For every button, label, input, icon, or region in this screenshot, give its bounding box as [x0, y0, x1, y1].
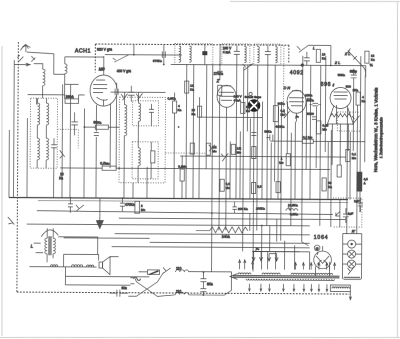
- IF transformer box2 dashed: [222, 44, 250, 65]
- svg-text:G: G: [316, 247, 319, 251]
- svg-text:Ka: Ka: [190, 88, 194, 92]
- osc switch a: [121, 94, 128, 101]
- ladder rung dots: [343, 244, 362, 264]
- tube V3 envelope: [287, 90, 306, 113]
- resistor 12Ka IF: [185, 81, 195, 93]
- osc lower coil: [138, 148, 140, 166]
- IF1 coil a: [179, 46, 181, 62]
- svg-text:Mo: Mo: [237, 150, 242, 154]
- dashed feedback box: [337, 112, 360, 131]
- svg-text:670Ka: 670Ka: [153, 59, 162, 63]
- svg-text:Mo: Mo: [322, 127, 327, 131]
- svg-text:Z: Z: [216, 78, 220, 83]
- switch mid: [221, 153, 228, 161]
- ladder switch: [347, 268, 353, 275]
- svg-text:4 mA: 4 mA: [223, 50, 231, 54]
- svg-text:Mo: Mo: [141, 208, 146, 212]
- diagonal feed wire: [347, 49, 366, 78]
- resistor 270Ka vert: [218, 85, 222, 95]
- svg-text:Ka: Ka: [59, 176, 63, 180]
- cap left low: [68, 198, 73, 213]
- svg-text:P²: P²: [256, 248, 260, 252]
- svg-text:10,5Ka: 10,5Ka: [288, 203, 298, 207]
- resistor 1Mo: [279, 154, 290, 166]
- resistor 0.25Mo v4: [316, 121, 328, 134]
- primary winding comb a: [238, 273, 251, 274]
- wires above rectifier: [253, 226, 309, 269]
- tuning coil 2a: [37, 138, 39, 160]
- osc switch b: [136, 93, 143, 100]
- svg-text:Mo: Mo: [280, 113, 285, 117]
- chassis dashed border left: [17, 42, 19, 292]
- bottom right lead: [349, 292, 351, 300]
- bus fourth: [27, 224, 310, 226]
- tube V2 electrodes: [219, 86, 234, 117]
- mid rails band: [54, 84, 71, 198]
- cap 680p: [351, 69, 357, 84]
- bus switch diagonal: [113, 55, 129, 63]
- tick on diagonal: [353, 56, 357, 60]
- lower horizontals: [64, 218, 310, 252]
- resistor mid white: [337, 165, 341, 177]
- svg-text:Schatt Gaps: Schatt Gaps: [245, 95, 262, 99]
- top right cap G: [304, 52, 310, 66]
- svg-text:50Ka: 50Ka: [338, 73, 346, 77]
- IF2 trimmer: [234, 45, 240, 62]
- svg-text:P³: P³: [295, 115, 299, 119]
- svg-text:200 Ka: 200 Ka: [238, 207, 248, 211]
- resistor 30Ka low: [276, 182, 280, 193]
- osc right resistor: [167, 96, 181, 113]
- choke coil a: [51, 265, 58, 267]
- osc sub-box lower dashed: [132, 142, 158, 179]
- tube ACH1 leads: [93, 56, 110, 198]
- wire speaker to right: [65, 256, 149, 285]
- wires 80Ka: [84, 108, 120, 198]
- resistor 10Ka v2 anode: [191, 106, 201, 117]
- IF3 trimmer: [265, 46, 271, 63]
- cap 8Ka upper: [200, 272, 206, 286]
- coil interconnects: [36, 98, 46, 168]
- svg-text:320 V g¾: 320 V g¾: [97, 47, 112, 51]
- resistor 50Ka lowmid: [322, 178, 332, 191]
- svg-text:R′: R′: [352, 230, 356, 234]
- output transformer secondary coil: [53, 238, 55, 254]
- svg-text:ℓ: ℓ: [332, 82, 335, 87]
- svg-text:Ka: Ka: [177, 108, 181, 112]
- bottom right comb box: [330, 285, 350, 292]
- cap 8Ka lower: [200, 286, 206, 295]
- fuse: [147, 270, 159, 275]
- osc main coil: [124, 105, 127, 136]
- main ground bus: [9, 197, 348, 199]
- wire anode link: [199, 116, 262, 118]
- osc sub-box upper dashed: [132, 101, 158, 126]
- side caption rotated: [373, 88, 384, 173]
- tap arrowheads up: [239, 260, 336, 266]
- chassis dashed border bottom: [17, 292, 349, 294]
- resistor x253: [252, 146, 256, 158]
- bus third: [119, 218, 346, 219]
- ground stub arrow: [14, 63, 31, 66]
- svg-text:Ka: Ka: [371, 58, 375, 62]
- verticals to transformer: [212, 199, 360, 273]
- tube ACH1 envelope: [90, 75, 117, 106]
- mains sine symbol: [133, 277, 140, 280]
- dashed link low: [165, 152, 205, 154]
- resistor 80Ka: [93, 121, 108, 130]
- wire 94.5: [28, 95, 85, 99]
- ladder top rung: [343, 233, 362, 235]
- wire antenna feed: [27, 52, 104, 74]
- primary taps up: [240, 251, 335, 269]
- resistor half Mo: [206, 143, 217, 155]
- svg-text:0,1Mo: 0,1Mo: [178, 165, 187, 169]
- tube V3 electrodes: [289, 91, 304, 122]
- tube V4 cone: [327, 105, 353, 124]
- osc right lower box: [178, 165, 187, 182]
- ladder bottom comb: [343, 277, 361, 279]
- ground hook left: [8, 217, 15, 225]
- cap mid small: [251, 132, 256, 135]
- svg-text:4092: 4092: [290, 70, 304, 76]
- svg-text:Ka: Ka: [191, 112, 195, 116]
- tube V4 envelope: [330, 87, 351, 108]
- output transformer core: [48, 236, 52, 255]
- tube V2 envelope: [217, 85, 236, 107]
- transformer leads: [34, 228, 98, 262]
- switch at V2 grid: [243, 63, 253, 70]
- bus second: [37, 211, 333, 215]
- svg-text:4 mA: 4 mA: [234, 98, 242, 102]
- svg-text:1 Zwischenfrequenzstufe: 1 Zwischenfrequenzstufe: [379, 117, 383, 158]
- svg-text:110: 110: [176, 267, 182, 271]
- tube V4 legs: [332, 124, 348, 165]
- svg-text:L: L: [313, 45, 315, 50]
- svg-text:8Ka: 8Ka: [207, 282, 213, 286]
- rectifier plates: [316, 256, 329, 265]
- svg-text:50Ka: 50Ka: [264, 130, 272, 134]
- resistor 12Ka top right: [365, 51, 375, 63]
- svg-text:Δ: Δ: [364, 181, 366, 185]
- svg-text:0,2 Mo: 0,2 Mo: [303, 135, 313, 139]
- tube V4 top cap: [334, 92, 348, 99]
- svg-text:Ka: Ka: [246, 109, 250, 113]
- primary winding comb c: [291, 273, 333, 275]
- left rail A: [12, 60, 15, 197]
- primary winding comb b: [262, 273, 280, 275]
- resistor 0.1Mo: [346, 150, 357, 162]
- left rail C: [26, 118, 28, 197]
- svg-text:60n: 60n: [121, 286, 127, 290]
- rectifier tube: [314, 251, 332, 269]
- choke coil b: [72, 265, 83, 267]
- svg-text:470Ka: 470Ka: [125, 203, 135, 207]
- svg-text:L: L: [31, 244, 34, 249]
- dashed link wire: [57, 129, 78, 148]
- mains choke upper: [176, 270, 189, 272]
- ground bus companion line: [38, 201, 348, 203]
- cap 1uF upper: [358, 198, 363, 212]
- tuning coil 2b: [46, 138, 48, 160]
- chassis dashed border right segment: [288, 45, 290, 63]
- svg-text:5000: 5000: [307, 112, 314, 116]
- resistor 10Ka mid: [241, 102, 250, 113]
- tuning coil 1a: [37, 103, 39, 125]
- resistor 0.5Mo: [100, 162, 116, 171]
- tube V4 heater zigzag: [330, 114, 351, 118]
- svg-text:240Δ: 240Δ: [222, 235, 231, 239]
- bus line IF level: [171, 64, 366, 65]
- lamp 2: [348, 250, 356, 258]
- hook arrow lower: [335, 211, 340, 216]
- power transformer core: [232, 276, 339, 278]
- horizontal AVC line: [180, 156, 345, 157]
- output transformer arc: [41, 230, 58, 237]
- left rail B: [8, 130, 10, 197]
- mains choke lower: [175, 292, 188, 294]
- antenna coil: [34, 64, 46, 99]
- lamp 1: [348, 240, 356, 248]
- switch left low: [76, 205, 84, 212]
- svg-text:110: 110: [176, 290, 182, 294]
- detector switch hook: [283, 111, 289, 118]
- svg-text:80Ka: 80Ka: [93, 121, 101, 125]
- lamp 3: [348, 260, 356, 268]
- rectifier grid circle: [314, 245, 320, 251]
- osc wires: [124, 92, 183, 198]
- svg-text:Mo: Mo: [352, 156, 357, 160]
- right dashed box: [333, 198, 362, 227]
- svg-text:260Δ: 260Δ: [66, 95, 75, 99]
- antenna switch contacts: [17, 55, 35, 62]
- top inner verticals: [134, 44, 164, 64]
- svg-text:Mo: Mo: [212, 149, 217, 153]
- antenna: [20, 44, 30, 52]
- osc lower resistor: [151, 151, 155, 163]
- IF2 coil: [244, 46, 246, 62]
- magic eye body: [248, 99, 261, 112]
- padder capacitor: [51, 138, 57, 153]
- resistor 260 horiz: [65, 99, 79, 104]
- svg-text:Nora, Wechselstrom W., 3 Kreis: Nora, Wechselstrom W., 3 Kreise, 1 Vorkr…: [373, 88, 379, 173]
- output transformer primary coil: [45, 238, 47, 254]
- top bus line: [105, 54, 182, 56]
- bottom right comb teeth: [332, 287, 350, 289]
- svg-text:300: 300: [346, 85, 351, 89]
- secondary taps down: [249, 284, 327, 290]
- cap 670Ka on bus: [162, 51, 165, 58]
- bus through 0.5Mo: [60, 168, 330, 170]
- wire 0.2Mo line: [270, 140, 365, 143]
- osc top wire: [111, 91, 166, 93]
- svg-text:ACH1: ACH1: [75, 48, 91, 54]
- top right switch: [297, 45, 331, 65]
- dashed vertical detector: [283, 46, 285, 109]
- mains leads left: [130, 278, 134, 284]
- svg-text:Ka: Ka: [328, 185, 332, 189]
- svg-text:1064: 1064: [314, 235, 329, 241]
- cap 50Ka mid: [266, 135, 273, 141]
- cap 200Ka: [232, 201, 237, 213]
- switch x210: [209, 145, 215, 152]
- svg-text:M0: M0: [99, 67, 106, 72]
- resistor 2Mo: [135, 201, 146, 213]
- chassis dashed border top: [95, 44, 288, 45]
- potentiometer scribble: [286, 207, 298, 211]
- band coil box dashed: [30, 98, 57, 168]
- resistor 50Ka x222: [220, 179, 230, 191]
- cap under IF1: [217, 44, 223, 81]
- cap 1uF lower: [343, 208, 349, 223]
- mains wiring right: [157, 271, 231, 296]
- magic eye cross: [250, 101, 258, 109]
- resistor 4Ka: [356, 92, 366, 105]
- IF1 blocking cap: [202, 45, 207, 65]
- choke coil c: [87, 265, 94, 267]
- cap 470Ka: [120, 198, 125, 211]
- magic eye pointer circle: [249, 92, 252, 95]
- wave switch: [60, 150, 65, 158]
- IF3 coil b: [275, 47, 277, 63]
- feedback switch: [352, 116, 360, 125]
- cap 50Ka grid: [310, 103, 322, 106]
- long verticals midband: [186, 55, 366, 272]
- svg-text:Mo: Mo: [279, 161, 284, 165]
- svg-text:0,5Mo: 0,5Mo: [100, 162, 110, 166]
- chassis dashed stub left: [94, 44, 96, 72]
- left rail D: [36, 98, 38, 104]
- core left arrow tip: [230, 274, 238, 280]
- speaker driver: [99, 257, 110, 275]
- rectifier leads: [315, 246, 329, 276]
- trimmer cap x74: [71, 112, 78, 135]
- svg-text:270Ka: 270Ka: [214, 72, 223, 76]
- crossover wires: [128, 272, 157, 297]
- IF transformer box1 dashed: [175, 44, 213, 65]
- IF3 coil a: [257, 47, 259, 63]
- tuning coil 1b: [46, 103, 48, 125]
- svg-text:20Ka: 20Ka: [305, 93, 313, 97]
- secondary tap arrowheads: [248, 288, 327, 291]
- IF1 coil b: [189, 46, 191, 62]
- svg-text:2 L: 2 L: [334, 60, 341, 65]
- top right resistor 13Ka: [316, 49, 326, 62]
- osc upper coil: [138, 103, 140, 121]
- box half Mo b: [231, 144, 241, 154]
- svg-text:0,3: 0,3: [257, 185, 262, 189]
- svg-text:Ka: Ka: [322, 56, 326, 60]
- svg-text:D N: D N: [284, 86, 291, 90]
- resistor 0.3 low: [251, 182, 261, 193]
- mid tap arrows: [252, 251, 278, 261]
- svg-text:Mo: Mo: [226, 186, 231, 190]
- svg-text:400Ka: 400Ka: [275, 125, 284, 129]
- input coupling coil: [65, 57, 68, 95]
- IF transformer box3 dashed: [254, 44, 281, 65]
- resistor 0.25Mo: [273, 106, 285, 129]
- resistor 4.58Ka dark: [357, 172, 368, 191]
- resistor 240 zigzag: [196, 213, 250, 233]
- chassis cap 60n: [109, 290, 128, 297]
- wire loop below: [30, 254, 99, 267]
- wire input junction: [63, 84, 79, 98]
- osc grid cap: [128, 86, 135, 102]
- resistor 0.2Mo horizontal: [302, 135, 313, 143]
- indicator ladder rails: [342, 234, 361, 280]
- grid capacitor: [115, 83, 119, 169]
- cap 5000: [312, 117, 317, 120]
- svg-text:400 V g¾: 400 V g¾: [117, 69, 131, 73]
- secondary winding comb: [246, 279, 334, 281]
- svg-text:680p: 680p: [350, 70, 357, 74]
- cap 20Ka: [307, 98, 312, 101]
- mains switch: [163, 267, 171, 273]
- svg-text:100Ka: 100Ka: [256, 207, 265, 211]
- svg-text:¼: ¼: [370, 63, 373, 67]
- ground arrow mid: [96, 198, 103, 229]
- svg-text:1μF: 1μF: [348, 212, 354, 216]
- resistor vert x192: [190, 143, 194, 154]
- osc upper cap: [149, 104, 154, 119]
- tube ACH1 electrodes: [93, 80, 108, 106]
- oscillator dashed box: [119, 97, 166, 183]
